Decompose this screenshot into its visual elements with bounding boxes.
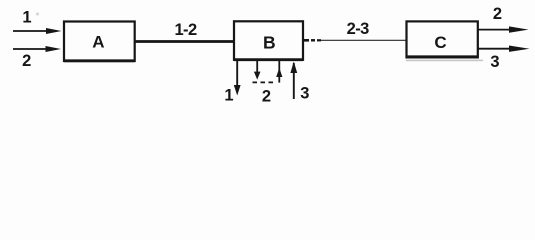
block C (407, 21, 478, 57)
svg-text:2-3: 2-3 (347, 20, 369, 38)
svg-text:C: C (434, 33, 446, 52)
wire output arrow 2 from C (478, 29, 513, 31)
scan-heavy bottom edge of C (407, 55, 478, 58)
svg-text:B: B (263, 32, 276, 52)
block B (234, 21, 303, 60)
wire input arrow 1 into A (13, 30, 50, 32)
block A (64, 22, 135, 62)
svg-text:2: 2 (493, 5, 502, 23)
wire up arrow stream 3 entering B (293, 63, 295, 99)
wire link 1-2 between A and B (135, 40, 234, 43)
svg-text:1-2: 1-2 (174, 21, 196, 39)
wire down arrow stream 1 leaving B (236, 61, 238, 86)
wire dashed return line of loop (253, 81, 275, 83)
svg-text:1: 1 (224, 87, 233, 105)
svg-text:1: 1 (22, 9, 31, 27)
scan-heavy bottom edge of B (234, 58, 303, 61)
svg-text:2: 2 (22, 52, 31, 70)
svg-text:3: 3 (300, 84, 309, 102)
svg-text:2: 2 (262, 87, 271, 105)
scan-heavy bottom edge of A (64, 59, 135, 62)
scan shadow under C (406, 59, 483, 61)
faint scan speck (36, 12, 39, 15)
wire output arrow 3 from C (478, 48, 512, 50)
wire link 2-3 between B and C (dashed then thin) (304, 39, 309, 42)
wire small up arrow of internal loop (stream 2 re-entering B) (278, 61, 280, 83)
wire small down arrow of internal loop (stream 2 leaving B) (256, 61, 258, 73)
svg-text:A: A (92, 32, 104, 51)
svg-text:3: 3 (490, 53, 499, 71)
wire input arrow 2 into A (13, 48, 49, 50)
